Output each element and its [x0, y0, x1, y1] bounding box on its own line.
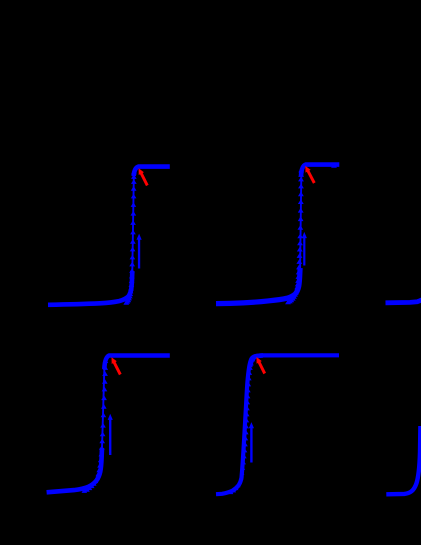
curve 2: steep rise connector line: [300, 176, 301, 268]
curve 5: red arrow pointing to jump corner: [257, 357, 267, 374]
curve 2: small marker bump near end of upper branch: [331, 163, 337, 168]
curve 2: isotherm top-middle, lower flat branch with bend: [216, 268, 300, 304]
curve 5: small dense triangle markers on rise: [229, 358, 255, 495]
curve 5: blue up arrow along rise: [249, 422, 254, 462]
curve 4: blue up arrow along rise: [108, 414, 113, 455]
curve 3: isotherm top-right partial lower branch: [386, 300, 421, 303]
curve 4: isotherm bottom-left, lower flat branch with bend: [47, 448, 102, 492]
curve 2: red arrow pointing to jump corner: [305, 166, 315, 184]
curve 4: top corner and upper flat branch: [104, 356, 170, 370]
curve 1: steep rise connector line: [132, 178, 134, 271]
curve 1: top corner and upper flat branch: [134, 167, 170, 176]
curve 2: triangle data markers on rise: [285, 168, 304, 305]
curve 2: top corner and upper flat branch: [301, 165, 339, 176]
curve 5: thick top corner overlay: [250, 355, 263, 367]
curve 2: blue up arrow along rise: [302, 232, 307, 266]
curve 1: blue up arrow along rise: [137, 234, 142, 269]
curve 5: isotherm bottom-middle, dense-marker sigmoid: [216, 355, 339, 494]
curve 4: steep rise connector line: [102, 367, 104, 448]
curve 1: triangle data markers on rise: [123, 169, 136, 304]
curve 1: red arrow pointing to jump corner: [139, 168, 149, 186]
curve 6: isotherm bottom-right partial with rise at edge: [386, 426, 420, 494]
curve 4: triangle data markers on rise: [82, 358, 109, 493]
curve 1: isotherm top-left, lower flat branch with bend: [48, 271, 132, 305]
curve 4: red arrow pointing to jump corner: [112, 357, 122, 375]
